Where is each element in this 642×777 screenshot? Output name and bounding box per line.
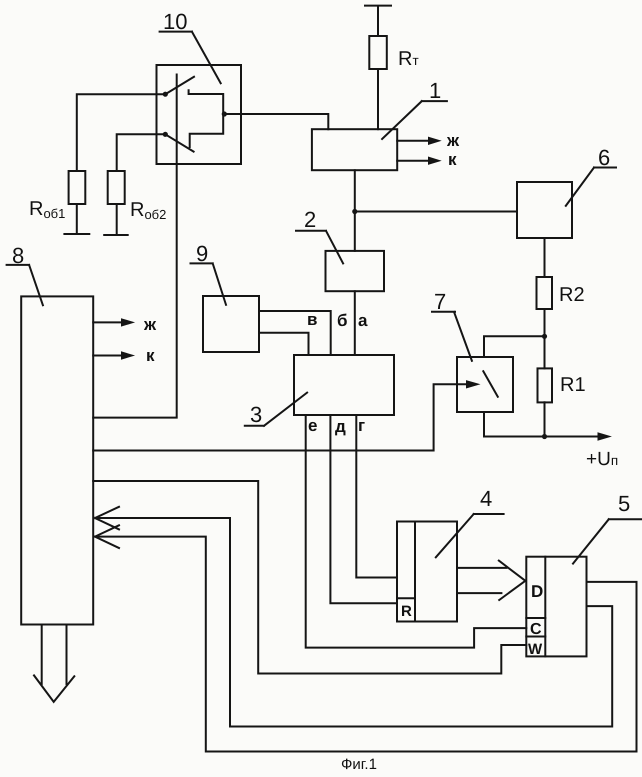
block1 zh arrow — [397, 140, 432, 142]
svg-text:R: R — [401, 603, 412, 620]
block4 R cell — [397, 597, 415, 599]
svg-text:к: к — [448, 150, 457, 169]
wire d to R — [330, 415, 397, 603]
junction node block10 input 1 — [163, 92, 168, 97]
block 2 — [326, 251, 385, 291]
block8 zh arrow — [93, 321, 126, 323]
leader 6 — [566, 168, 616, 206]
svg-text:4: 4 — [480, 486, 492, 511]
svg-text:3: 3 — [250, 402, 262, 427]
svg-text:г: г — [358, 416, 365, 435]
leader 2 — [296, 231, 343, 264]
wire node to block7 top — [484, 336, 545, 357]
block1 k arrow — [397, 160, 432, 162]
wire block6 to R2 — [544, 238, 546, 277]
wire block5 top out right loop to block8 lower arrow — [97, 537, 637, 752]
trunk block2-block3 (a) — [354, 291, 356, 355]
resistor Rob1 — [69, 171, 86, 204]
bus arrow 4 to 5 — [457, 561, 525, 600]
block7 internal diagonal — [483, 371, 498, 397]
arrowhead +Un output — [598, 432, 612, 440]
leader 1 — [382, 101, 447, 139]
svg-text:W: W — [528, 641, 543, 658]
junction node R1-+Un — [542, 434, 547, 439]
svg-text:9: 9 — [196, 241, 208, 266]
Rob2 ground — [104, 204, 128, 235]
wire e to C — [306, 415, 527, 648]
wire 9 upper out (b) — [259, 311, 331, 355]
svg-text:7: 7 — [434, 289, 446, 314]
arrowhead block1 zh output — [428, 137, 442, 145]
arrowhead into block7 — [466, 380, 481, 388]
block 1 — [312, 129, 397, 170]
svg-text:к: к — [146, 346, 155, 365]
wire dot1 to Rob1 — [77, 94, 166, 171]
wire block10 out to block1 — [224, 114, 328, 129]
block 6 — [517, 182, 572, 238]
block10 internal long vertical to block8 — [93, 75, 177, 418]
block8 input arrow barbs upper — [95, 507, 119, 530]
leader 3 — [245, 393, 307, 426]
svg-text:1: 1 — [429, 78, 441, 103]
transistor Q2 diagonal — [165, 134, 193, 151]
leader 10 — [160, 32, 221, 84]
arrowhead block8 k output — [121, 351, 135, 359]
svg-text:ж: ж — [143, 315, 157, 334]
arrowhead block8 zh output — [121, 318, 135, 326]
block5 divider — [544, 557, 546, 657]
Rob1 ground — [64, 204, 89, 234]
svg-text:+Uп: +Uп — [586, 449, 618, 470]
svg-text:б: б — [337, 311, 348, 330]
block 3 — [294, 355, 394, 415]
resistor R2 — [537, 277, 553, 309]
leader 9 — [191, 263, 227, 304]
wire R2 to node — [544, 309, 546, 368]
svg-text:6: 6 — [598, 145, 610, 170]
big hollow arrow below block8 — [34, 625, 74, 702]
junction node block10 output — [222, 111, 227, 116]
resistor R1 — [538, 368, 553, 402]
svg-text:в: в — [307, 310, 317, 329]
leader 5 — [573, 519, 642, 563]
leader 8 — [7, 265, 43, 305]
arrowhead block1 k output — [428, 157, 442, 165]
block 10 — [157, 65, 242, 164]
transistor Q1 diagonal — [165, 77, 194, 94]
block5 cell lines — [526, 618, 545, 637]
block 4 — [397, 522, 457, 622]
block 5 — [526, 557, 586, 657]
junction node R2-R1-block7 — [542, 334, 547, 339]
wire block7 bottom to +U node — [484, 412, 545, 437]
block8 k arrow — [93, 355, 126, 357]
dual transistor collector bracket — [189, 90, 224, 147]
svg-text:д: д — [335, 417, 346, 436]
svg-text:C: C — [530, 621, 542, 638]
power bar top — [365, 6, 391, 36]
leader 4 — [436, 514, 504, 557]
wire dot2 to Rob2 — [117, 134, 166, 171]
+U output arrow — [545, 436, 601, 438]
block4 divider — [414, 522, 416, 622]
wire R1 to node — [544, 402, 546, 436]
wire block5 D out right loop to block8 upper arrow — [97, 518, 612, 727]
resistor RT — [369, 36, 387, 69]
svg-text:R1: R1 — [560, 374, 586, 396]
svg-text:8: 8 — [12, 243, 24, 268]
wire g to block4 — [356, 415, 397, 578]
svg-text:Фиг.1: Фиг.1 — [341, 756, 377, 773]
trunk block1-block2 — [354, 170, 356, 251]
block 7 — [457, 357, 513, 412]
svg-text:5: 5 — [618, 491, 630, 516]
junction node block1-block2-block6 — [352, 209, 357, 214]
wire block8 to block7 arrow — [93, 384, 468, 450]
wire RT to block1 — [377, 69, 379, 129]
svg-text:10: 10 — [163, 9, 187, 34]
leader 7 — [432, 312, 472, 361]
svg-text:2: 2 — [304, 207, 316, 232]
block 9 — [203, 296, 259, 352]
wire 9 lower out (v) — [259, 333, 309, 355]
junction node block10 input 2 — [163, 132, 168, 137]
svg-text:ж: ж — [446, 131, 460, 150]
wire W input — [93, 481, 526, 674]
wire node to block6 — [355, 211, 517, 213]
svg-text:D: D — [531, 582, 543, 601]
svg-text:е: е — [308, 416, 317, 435]
svg-text:R2: R2 — [559, 284, 585, 306]
svg-text:а: а — [358, 311, 368, 330]
resistor Rob2 — [108, 171, 125, 204]
block 8 — [21, 296, 93, 624]
block8 input arrow barbs lower — [95, 525, 119, 548]
